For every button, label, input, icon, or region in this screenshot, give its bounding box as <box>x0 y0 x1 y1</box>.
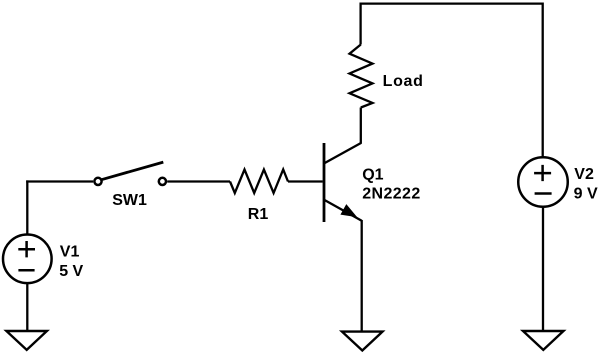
source V1 minus sign <box>18 269 34 272</box>
source V1 circle <box>3 234 52 283</box>
wire V2 top vertical <box>542 3 544 159</box>
svg-text:R1: R1 <box>248 206 269 223</box>
resistor Load <box>350 45 373 108</box>
wire V2 bottom vertical <box>542 206 544 331</box>
ground under V1 <box>6 331 47 350</box>
wire collector-top vertical (load top) <box>359 3 361 45</box>
switch SW1 blade <box>101 162 163 180</box>
transistor Q1 emitter diagonal <box>323 199 361 220</box>
ground under V2 <box>523 331 564 350</box>
wire V1 top vertical <box>26 180 28 235</box>
transistor Q1 base bar <box>323 143 326 222</box>
wire switch to R1 <box>167 180 230 182</box>
resistor R1 <box>230 170 288 194</box>
source V2 plus sign <box>534 165 551 181</box>
wire base <box>288 180 323 182</box>
svg-text:5 V: 5 V <box>59 263 83 280</box>
ground under emitter <box>342 332 383 351</box>
transistor Q1 collector diagonal <box>323 143 361 164</box>
wire V1 bottom vertical <box>26 283 28 332</box>
switch SW1 right terminal <box>159 178 166 185</box>
source V2 circle <box>518 157 568 207</box>
wire V1 to switch <box>26 180 93 182</box>
wire top rail <box>361 2 543 4</box>
svg-text:2N2222: 2N2222 <box>362 186 420 203</box>
svg-text:Load: Load <box>383 73 424 90</box>
svg-text:V1: V1 <box>60 244 80 261</box>
svg-text:9 V: 9 V <box>574 185 598 202</box>
transistor Q1 emitter arrowhead <box>341 205 356 217</box>
switch SW1 left terminal <box>94 178 101 185</box>
source V2 minus sign <box>535 192 552 195</box>
svg-text:Q1: Q1 <box>362 166 383 183</box>
svg-text:SW1: SW1 <box>112 192 147 209</box>
wire emitter vertical <box>361 220 363 332</box>
wire load bottom to collector <box>360 108 362 144</box>
svg-text:V2: V2 <box>574 166 594 183</box>
source V1 plus sign <box>18 241 35 257</box>
